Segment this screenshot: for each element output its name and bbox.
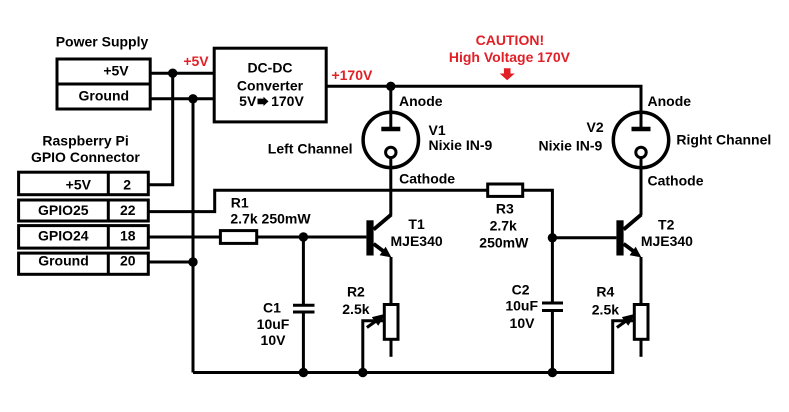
svg-text:18: 18 [120,227,136,243]
svg-text:Anode: Anode [648,93,692,109]
svg-text:R4: R4 [596,284,614,300]
wire T2 emitter to R4 [640,257,643,305]
svg-text:R1: R1 [231,194,249,210]
wire +170V rail [326,86,641,129]
svg-text:C1: C1 [263,299,281,315]
GPIO row pin18 [19,226,149,249]
svg-text:Left Channel: Left Channel [268,140,353,156]
capacitor C2 [542,302,563,305]
svg-text:DC-DC: DC-DC [247,59,292,75]
DC-DC converter module [214,48,326,122]
svg-text:CAUTION!: CAUTION! [476,32,544,48]
junction R2 wiper on ground bus [358,368,367,377]
wire ground vertical rail [192,99,195,373]
svg-text:+5V: +5V [66,176,92,192]
svg-text:T1: T1 [408,216,425,232]
svg-text:22: 22 [120,202,136,218]
junction C1 on ground bus [299,368,308,377]
wire R4 bottom stub [640,339,643,357]
wire GPIO pin20 to ground rail [148,261,193,264]
wire R4 wiper arrow [617,321,626,328]
svg-text:Nixie IN-9: Nixie IN-9 [539,137,603,153]
svg-text:+5V: +5V [103,63,129,79]
svg-text:Raspberry Pi: Raspberry Pi [42,133,128,149]
wire ground bus bottom [193,321,635,373]
junction C2 on ground bus [548,368,557,377]
svg-text:Right Channel: Right Channel [676,131,771,147]
svg-text:Ground: Ground [79,87,130,103]
svg-text:+5V: +5V [183,53,209,69]
svg-text:2.7k 250mW: 2.7k 250mW [230,211,311,227]
svg-text:High Voltage 170V: High Voltage 170V [449,49,571,65]
wire R3 to T2 base column [523,190,553,302]
svg-text:MJE340: MJE340 [391,233,443,249]
svg-text:V1: V1 [429,122,446,138]
svg-text:+170V: +170V [331,67,373,83]
junction pin20 ground [188,257,197,266]
svg-text:Nixie IN-9: Nixie IN-9 [429,137,493,153]
capacitor C1 [302,237,305,304]
svg-text:R3: R3 [496,201,514,217]
wire R2 bottom stub [390,339,393,357]
transistor T2 [616,215,641,258]
nixie tube V2 [613,112,668,167]
GPIO row pin2 [19,172,149,195]
wire R1 to T1 base [257,236,367,239]
svg-text:Power Supply: Power Supply [56,34,149,50]
GPIO row pin22 [19,200,149,221]
junction ground node [188,94,197,103]
svg-text:C2: C2 [512,282,530,298]
wire +5V from power supply to DC-DC [150,72,214,75]
svg-text:Cathode: Cathode [648,173,704,189]
wire V1 cathode to T1 collector [389,158,392,215]
svg-text:2: 2 [123,176,131,192]
junction V1 anode on +170V rail [386,82,395,91]
svg-text:T2: T2 [658,216,675,232]
junction T2 base / C2 [548,233,557,242]
svg-text:Cathode: Cathode [399,171,455,187]
svg-text:10uF: 10uF [257,316,290,332]
svg-text:GPIO Connector: GPIO Connector [31,149,140,165]
svg-text:5V: 5V [239,93,257,109]
wire ground from power supply to DC-DC [150,97,214,100]
svg-text:10uF: 10uF [505,298,538,314]
trimmer R4 [634,305,648,340]
wire GPIO25 to R3 [148,190,487,211]
resistor R3 [488,184,523,196]
junction +5V node [168,69,177,78]
GPIO row pin20 [19,253,149,274]
junction T1 base / C1 [299,232,308,241]
wire +5V drop to GPIO pin 2 [148,73,172,185]
svg-text:GPIO24: GPIO24 [38,227,89,243]
svg-text:20: 20 [120,252,136,268]
nixie tube V1 [363,86,418,167]
svg-text:V2: V2 [587,119,604,135]
resistor R1 [220,231,256,244]
svg-text:R2: R2 [347,284,365,300]
svg-text:2.5k: 2.5k [342,301,369,317]
wire GPIO24 to R1 [148,236,220,239]
svg-text:Converter: Converter [237,77,304,93]
svg-text:2.7k: 2.7k [490,218,517,234]
svg-text:2.5k: 2.5k [592,301,619,317]
svg-text:10V: 10V [510,315,536,331]
svg-text:170V: 170V [271,93,304,109]
svg-text:10V: 10V [261,332,287,348]
svg-text:MJE340: MJE340 [641,233,693,249]
wire R2 wiper to ground bus [363,321,385,373]
trimmer R2 [384,305,398,340]
svg-text:Anode: Anode [399,93,443,109]
wire V2 cathode to T2 collector [640,158,643,215]
transistor T1 [366,215,391,258]
wire T1 emitter to R2 [390,257,393,305]
svg-text:GPIO25: GPIO25 [38,202,89,218]
svg-text:250mW: 250mW [479,235,529,251]
svg-text:Ground: Ground [38,252,89,268]
wire to T2 base [552,236,616,239]
power supply box [57,59,150,109]
